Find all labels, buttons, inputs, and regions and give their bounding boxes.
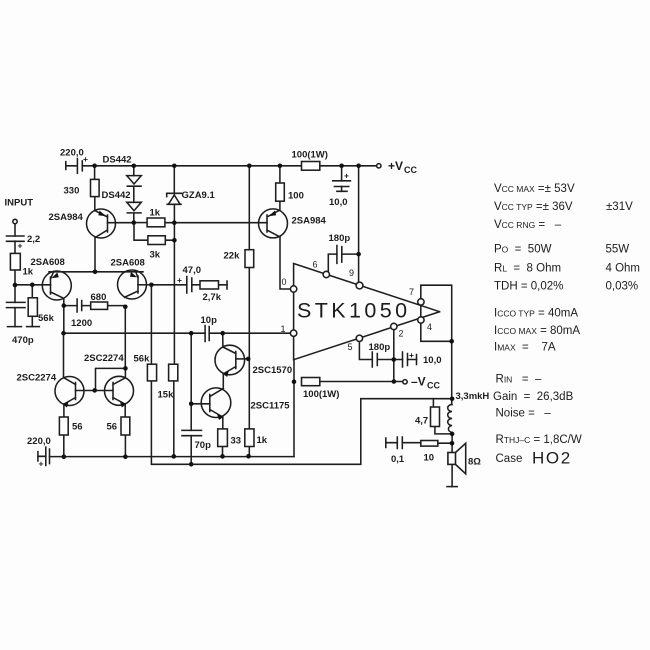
resistor 10 bbox=[421, 441, 438, 464]
diode DS442 top bbox=[103, 155, 142, 187]
wire 1k to 2SA984 base bbox=[165, 222, 267, 224]
transistor 2SC1570 bbox=[215, 345, 292, 377]
svg-text:220,0: 220,0 bbox=[60, 148, 84, 159]
wire 56k to rail2 bbox=[151, 381, 452, 464]
capacitor 2,2 input bbox=[7, 234, 41, 251]
resistor 330 bbox=[64, 179, 100, 196]
wire zobel 0,1 10 bbox=[386, 442, 452, 445]
transistor 2SA608 left bbox=[31, 257, 72, 300]
resistor 1k output bbox=[245, 429, 268, 447]
svg-text:DS442: DS442 bbox=[102, 190, 131, 201]
wire mirror link bbox=[96, 368, 126, 390]
wire 2SC1175 base lead bbox=[191, 403, 210, 405]
svg-text:10,0: 10,0 bbox=[329, 197, 348, 208]
wire 220,0 bottom lead bbox=[38, 455, 46, 457]
svg-text:+: + bbox=[39, 459, 44, 469]
wire 2SA984 collector to pin0 bbox=[280, 237, 290, 289]
resistor 56 left bbox=[59, 417, 82, 435]
op-amp STK1050 bbox=[281, 260, 452, 360]
wire 3k branch bbox=[134, 223, 174, 241]
wire 2SC1175 emitter lead bbox=[222, 417, 224, 429]
diode DS442 bottom bbox=[102, 190, 142, 213]
wire 1200 680 row bbox=[64, 305, 126, 307]
wire 2SC2274 R emitter bbox=[124, 404, 126, 457]
svg-text:330: 330 bbox=[64, 186, 80, 197]
wire 2SA984 collector drop bbox=[94, 238, 96, 272]
wire 4,7 leads bbox=[433, 399, 452, 434]
wire 2SC2274 base link bbox=[76, 390, 114, 392]
svg-text:+: + bbox=[83, 154, 88, 164]
inductor 3,3mkH bbox=[448, 391, 490, 432]
svg-text:4 Ohm: 4 Ohm bbox=[606, 263, 641, 275]
svg-text:+: + bbox=[177, 275, 182, 285]
resistor 2,7k bbox=[200, 281, 227, 303]
wire input to base bbox=[15, 284, 51, 286]
svg-text:4,7: 4,7 bbox=[415, 416, 428, 427]
svg-text:10p: 10p bbox=[201, 315, 218, 326]
resistor 1k input bbox=[10, 253, 33, 277]
capacitor 10,0 bottom bbox=[403, 350, 442, 367]
wire output node down bbox=[451, 341, 453, 486]
svg-text:0: 0 bbox=[282, 277, 287, 287]
svg-text:2SA608: 2SA608 bbox=[31, 257, 65, 268]
svg-text:VCC RNG = –: VCC RNG = – bbox=[494, 219, 562, 231]
svg-text:ICCO TYP = 40mA: ICCO TYP = 40mA bbox=[494, 308, 578, 320]
wire emitter rail 2SA608 bbox=[49, 271, 143, 273]
wire 56k input leads bbox=[31, 285, 33, 327]
svg-text:8Ω: 8Ω bbox=[468, 457, 481, 468]
node rail1 dots bbox=[62, 455, 67, 460]
wire ground rail1 bbox=[50, 456, 295, 458]
svg-text:1k: 1k bbox=[23, 267, 34, 278]
node y333 dots bbox=[61, 331, 66, 336]
wire collector node left bbox=[63, 299, 65, 334]
svg-text:680: 680 bbox=[91, 292, 107, 303]
node 47,0 dot bbox=[149, 283, 154, 288]
svg-text:RTHJ–C = 1,8C/W: RTHJ–C = 1,8C/W bbox=[496, 434, 582, 446]
svg-text:+: + bbox=[409, 350, 414, 360]
svg-text:INPUT: INPUT bbox=[5, 198, 34, 209]
capacitor 10,0 top bbox=[329, 171, 350, 209]
svg-text:0,03%: 0,03% bbox=[606, 281, 639, 293]
svg-text:7: 7 bbox=[409, 287, 414, 297]
svg-text:TDH = 0,02%: TDH = 0,02% bbox=[494, 281, 563, 293]
wire input coupling bbox=[14, 224, 16, 285]
svg-text:Gain = 26,3dB: Gain = 26,3dB bbox=[493, 391, 574, 403]
wire 330 top lead bbox=[94, 166, 96, 180]
wire 33 bottom lead bbox=[222, 447, 224, 457]
svg-text:220,0: 220,0 bbox=[27, 436, 51, 447]
wire 100 resistor leads bbox=[279, 166, 281, 211]
svg-text:56k: 56k bbox=[38, 313, 55, 324]
svg-text:±31V: ±31V bbox=[606, 201, 633, 213]
wire 180p to pin6 bbox=[328, 254, 358, 271]
wire 22k down to 1k bbox=[248, 268, 250, 429]
svg-text:CC: CC bbox=[404, 165, 417, 175]
svg-text:100(1W): 100(1W) bbox=[303, 389, 339, 400]
svg-text:IMAX = 7A: IMAX = 7A bbox=[494, 342, 556, 354]
node rail dots bbox=[92, 164, 97, 169]
svg-text:100: 100 bbox=[288, 191, 304, 202]
node pin5 pin2 dots bbox=[392, 357, 397, 362]
svg-text:6: 6 bbox=[313, 260, 318, 270]
svg-text:100(1W): 100(1W) bbox=[292, 150, 328, 161]
svg-text:2: 2 bbox=[399, 329, 404, 339]
wire 330 bottom lead bbox=[94, 197, 96, 211]
node 1200 dots bbox=[62, 303, 67, 308]
svg-text:2SA608: 2SA608 bbox=[111, 258, 145, 269]
svg-text:VCC MAX =± 53V: VCC MAX =± 53V bbox=[494, 183, 575, 195]
wire pin5 branch 180p 10,0 bbox=[359, 342, 416, 360]
zener diode GZA9.1 bbox=[167, 190, 216, 205]
node mirror dots bbox=[123, 366, 128, 371]
svg-text:CC: CC bbox=[427, 381, 440, 391]
transistor 2SC2274 right bbox=[84, 353, 134, 408]
resistor 1k bias bbox=[147, 208, 165, 227]
wire node A to 1k bbox=[134, 222, 147, 224]
svg-text:Noise = –: Noise = – bbox=[496, 408, 552, 420]
wire 2SC2274 L emitter bbox=[63, 404, 65, 457]
terminal +Vcc bbox=[377, 159, 418, 175]
wire diode chain bbox=[133, 166, 135, 223]
svg-text:2SC1175: 2SC1175 bbox=[251, 401, 291, 412]
svg-text:1k: 1k bbox=[257, 435, 268, 446]
node rail2 dot bbox=[189, 462, 194, 467]
svg-text:470p: 470p bbox=[12, 335, 34, 346]
speaker 8 Ohm bbox=[447, 443, 481, 486]
wire 2SC1570 base lead bbox=[236, 358, 248, 360]
svg-text:RL = 8 Ohm: RL = 8 Ohm bbox=[494, 263, 561, 275]
resistor 56k mid bbox=[134, 354, 157, 381]
node output dots bbox=[449, 339, 454, 344]
capacitor 10p bbox=[201, 315, 218, 342]
wire zener leads bbox=[173, 166, 175, 364]
wire node to 47,0 bbox=[151, 284, 227, 286]
svg-text:56k: 56k bbox=[134, 354, 151, 365]
svg-text:STK1050: STK1050 bbox=[297, 299, 410, 323]
svg-text:3k: 3k bbox=[150, 250, 161, 261]
svg-text:+: + bbox=[344, 171, 349, 181]
wire 2SA984 left base bbox=[108, 222, 135, 224]
terminal input bbox=[5, 198, 34, 224]
svg-text:HO2: HO2 bbox=[532, 449, 572, 468]
node emitter rail dot bbox=[93, 270, 98, 275]
svg-text:5: 5 bbox=[348, 342, 353, 352]
node 1570 base dot bbox=[246, 357, 251, 362]
wire 100(1W) bottom right lead bbox=[320, 381, 403, 383]
svg-text:VCC TYP =± 36V: VCC TYP =± 36V bbox=[494, 201, 573, 213]
wire left branch down bbox=[63, 333, 65, 377]
node 1175 base dot bbox=[189, 402, 194, 407]
svg-text:+V: +V bbox=[388, 159, 403, 173]
wire 2SC1570 collector lead bbox=[222, 333, 224, 347]
wire rail1 up to amp bbox=[293, 360, 295, 457]
resistor 3k bbox=[148, 236, 165, 261]
svg-text:10,0: 10,0 bbox=[423, 355, 442, 366]
wire 10,0 cap leads bbox=[341, 166, 343, 192]
wire 15k bottom lead bbox=[173, 381, 175, 457]
wire pin2 drop bbox=[393, 330, 395, 382]
svg-text:PO = 50W: PO = 50W bbox=[494, 244, 552, 256]
svg-text:70p: 70p bbox=[195, 440, 212, 451]
node input dots bbox=[13, 283, 18, 288]
transistor 2SC1175 bbox=[201, 388, 290, 420]
svg-text:–V: –V bbox=[411, 375, 426, 389]
svg-text:RIN = –: RIN = – bbox=[496, 374, 543, 386]
wire mirror collector bbox=[124, 368, 126, 377]
resistor 33 bbox=[218, 429, 241, 447]
svg-text:+: + bbox=[18, 241, 23, 251]
svg-text:2SA984: 2SA984 bbox=[49, 212, 84, 223]
svg-text:2SA984: 2SA984 bbox=[292, 216, 327, 227]
terminal -Vcc bbox=[403, 375, 441, 391]
svg-text:3,3mkH: 3,3mkH bbox=[456, 391, 490, 402]
svg-text:56: 56 bbox=[107, 422, 118, 433]
wire 22k top lead bbox=[248, 166, 250, 250]
capacitor 1200 bbox=[71, 299, 92, 329]
capacitor 470p bbox=[7, 302, 34, 346]
wire feedback line y333 bbox=[64, 332, 291, 334]
capacitor 220,0 bottom bbox=[27, 436, 51, 469]
svg-text:10: 10 bbox=[424, 453, 435, 464]
svg-text:2SC2274: 2SC2274 bbox=[84, 353, 124, 364]
svg-text:ICCO MAX = 80mA: ICCO MAX = 80mA bbox=[494, 325, 580, 337]
resistor 100 bbox=[276, 183, 304, 202]
capacitor 70p bbox=[182, 430, 211, 451]
svg-text:Case: Case bbox=[496, 453, 523, 465]
svg-text:4: 4 bbox=[427, 322, 432, 332]
wire 470p leads bbox=[14, 285, 16, 327]
wire 70p branch bbox=[190, 333, 192, 464]
resistor 4,7 bbox=[415, 407, 440, 427]
wire rail to pin9 bbox=[358, 166, 360, 282]
resistor 15k bbox=[158, 364, 178, 400]
svg-text:GZA9.1: GZA9.1 bbox=[182, 190, 216, 201]
svg-text:1: 1 bbox=[281, 324, 286, 334]
svg-text:2,7k: 2,7k bbox=[203, 292, 222, 303]
svg-text:1k: 1k bbox=[150, 208, 161, 219]
resistor 100(1W) top bbox=[292, 150, 328, 171]
resistor 56k input bbox=[27, 298, 55, 327]
svg-text:33: 33 bbox=[231, 436, 242, 447]
svg-text:55W: 55W bbox=[606, 244, 630, 256]
svg-text:180p: 180p bbox=[329, 233, 351, 244]
svg-text:180p: 180p bbox=[369, 342, 391, 353]
svg-text:47,0: 47,0 bbox=[183, 265, 202, 276]
wire 1k bottom lead bbox=[248, 447, 250, 457]
transistor 2SC2274 left bbox=[17, 373, 85, 408]
resistor 22k bbox=[224, 250, 254, 268]
resistor 100(1W) bottom bbox=[302, 378, 340, 401]
resistor 56 right bbox=[107, 417, 130, 435]
capacitor C 220,0 top bbox=[60, 148, 88, 174]
svg-text:1200: 1200 bbox=[71, 318, 92, 329]
transistor 2SA608 right bbox=[111, 258, 147, 300]
wire +Vcc rail right bbox=[320, 165, 377, 167]
svg-text:9: 9 bbox=[349, 268, 354, 278]
transistor 2SA984 left bbox=[49, 209, 116, 238]
svg-text:22k: 22k bbox=[224, 251, 241, 262]
wire +Vcc rail left bbox=[82, 165, 301, 167]
capacitor 0,1 bbox=[386, 437, 405, 465]
wire 2SC1570 emitter to 2SC1175 bbox=[222, 374, 224, 389]
resistor 680 bbox=[91, 292, 108, 309]
capacitor 47,0 bbox=[177, 265, 201, 293]
node 180p dot bbox=[356, 252, 361, 257]
svg-text:2SC2274: 2SC2274 bbox=[17, 373, 57, 384]
wire 2SA608 base to node bbox=[138, 284, 151, 286]
capacitor 180p top bbox=[329, 233, 351, 263]
svg-text:2,2: 2,2 bbox=[27, 234, 40, 245]
svg-text:0,1: 0,1 bbox=[391, 454, 405, 465]
wire node down to 56k bbox=[150, 285, 152, 364]
svg-text:15k: 15k bbox=[158, 390, 175, 401]
wire 2SA608 R collector drop bbox=[124, 307, 126, 369]
svg-text:DS442: DS442 bbox=[103, 155, 132, 166]
capacitor 180p bottom bbox=[369, 342, 391, 367]
transistor 2SA984 right bbox=[259, 209, 327, 238]
node bias dots bbox=[132, 220, 137, 225]
svg-text:2SC1570: 2SC1570 bbox=[253, 365, 293, 376]
svg-text:56: 56 bbox=[72, 422, 83, 433]
